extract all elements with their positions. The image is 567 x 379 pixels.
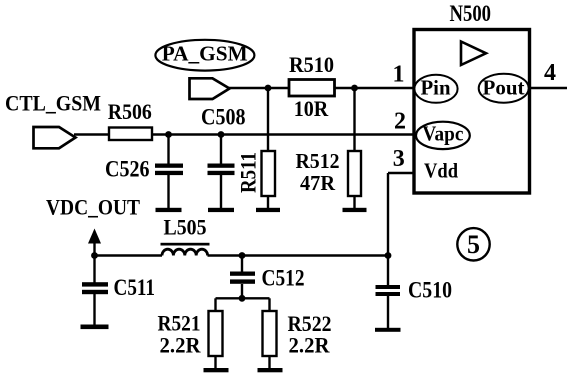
- connector PA_GSM: [190, 78, 230, 99]
- svg-text:R512: R512: [296, 149, 340, 173]
- wire R511 to ground: [267, 196, 269, 209]
- op-amp U1 N500 IC box: [414, 30, 530, 194]
- node junction C512 top: [239, 252, 246, 259]
- node junction C508: [218, 131, 225, 138]
- wire C508 to ground: [220, 175, 222, 209]
- wire C511 branch: [93, 256, 95, 283]
- wire rail3 L505 to C510 node: [208, 254, 389, 256]
- wire bracket right vertical: [268, 298, 270, 312]
- wire C526 to ground: [167, 175, 169, 209]
- svg-text:10R: 10R: [294, 96, 330, 121]
- svg-text:1: 1: [393, 62, 405, 88]
- wire R512 to ground: [353, 196, 355, 209]
- capacitor C512 plates: [230, 272, 255, 284]
- svg-text:PA_GSM: PA_GSM: [162, 42, 248, 66]
- wire pin4 out: [530, 87, 567, 89]
- svg-text:2.2R: 2.2R: [289, 332, 331, 357]
- svg-text:R511: R511: [236, 152, 261, 193]
- amplifier triangle inside N500: [461, 42, 486, 66]
- svg-text:C526: C526: [105, 157, 150, 182]
- wire R511 branch down from rail1: [267, 88, 269, 151]
- wire R512 branch down from rail1: [353, 88, 355, 151]
- svg-text:C512: C512: [262, 266, 305, 291]
- capacitor C511 plates: [82, 282, 108, 294]
- node Pout ellipse: [479, 74, 529, 103]
- node junction C512 bottom: [239, 295, 246, 302]
- wire VDC_OUT arrow stem: [93, 241, 95, 256]
- svg-text:N500: N500: [450, 1, 492, 26]
- svg-text:C508: C508: [201, 105, 246, 130]
- wire C512 to lower node: [241, 284, 243, 298]
- capacitor C526 plates: [155, 164, 183, 176]
- svg-text:Vapc: Vapc: [422, 122, 463, 146]
- svg-text:Pin: Pin: [421, 76, 451, 100]
- node 5 circle: [457, 228, 489, 260]
- svg-text:Vdd: Vdd: [424, 159, 458, 183]
- node junction VDC_OUT: [91, 252, 98, 259]
- wire C526 branch: [167, 135, 169, 165]
- wire rail3 left VDC_OUT to L505: [95, 254, 163, 256]
- connector CTL_GSM: [34, 127, 76, 148]
- node junction rail1 right: [351, 85, 358, 92]
- svg-text:4: 4: [544, 60, 556, 86]
- svg-text:2.2R: 2.2R: [160, 333, 202, 358]
- resistor R521: [209, 311, 223, 356]
- ground R522: [258, 368, 283, 372]
- svg-text:2: 2: [394, 109, 406, 135]
- svg-text:3: 3: [393, 146, 405, 172]
- svg-text:5: 5: [467, 230, 480, 259]
- resistor R506: [109, 128, 152, 141]
- capacitor C510 plates: [376, 285, 401, 296]
- wire pin3 Vdd horizontal: [388, 172, 414, 174]
- wire R522 to ground: [268, 356, 270, 369]
- wire C510 branch: [387, 256, 389, 286]
- node junction C510: [385, 252, 392, 259]
- inductor L505: [161, 243, 210, 256]
- wire rail1 PA_GSM to Pin: [229, 87, 413, 89]
- svg-text:R510: R510: [289, 52, 334, 77]
- ground C510: [375, 328, 401, 332]
- wire bracket horizontal to R521 R522: [216, 297, 270, 299]
- capacitor C508 plates: [208, 164, 235, 176]
- resistor R511: [262, 151, 276, 196]
- node Vapc ellipse: [416, 122, 470, 149]
- resistor R510: [289, 80, 335, 97]
- wire bracket left vertical: [214, 298, 216, 312]
- node PA_GSM ellipse: [155, 40, 254, 71]
- svg-text:L505: L505: [164, 215, 207, 240]
- svg-text:VDC_OUT: VDC_OUT: [46, 195, 140, 220]
- arrow VDC_OUT: [88, 229, 101, 244]
- ground R521: [204, 368, 229, 372]
- node junction C526: [165, 131, 172, 138]
- wire C510 to ground: [387, 296, 389, 328]
- wire C512 branch: [241, 256, 243, 272]
- node junction rail1 left: [265, 85, 272, 92]
- resistor R522: [263, 311, 277, 356]
- node Pin ellipse: [414, 75, 457, 103]
- svg-text:C511: C511: [114, 275, 156, 300]
- ground R511: [256, 208, 280, 212]
- wire rail2 CTL_GSM to Vapc: [74, 133, 413, 135]
- ground C511: [81, 325, 109, 330]
- wire C508 branch: [220, 135, 222, 165]
- svg-text:CTL_GSM: CTL_GSM: [5, 91, 101, 116]
- svg-text:R506: R506: [108, 99, 152, 124]
- svg-text:C510: C510: [408, 278, 452, 303]
- ground C526: [156, 208, 182, 212]
- resistor R512: [348, 151, 361, 196]
- wire C511 to ground: [93, 294, 95, 326]
- wire R521 to ground: [214, 356, 216, 369]
- svg-text:Pout: Pout: [483, 76, 525, 100]
- ground R512: [343, 208, 367, 212]
- wire pin3 vertical down to rail3: [387, 173, 389, 256]
- svg-text:47R: 47R: [300, 171, 336, 195]
- ground C508: [208, 208, 234, 212]
